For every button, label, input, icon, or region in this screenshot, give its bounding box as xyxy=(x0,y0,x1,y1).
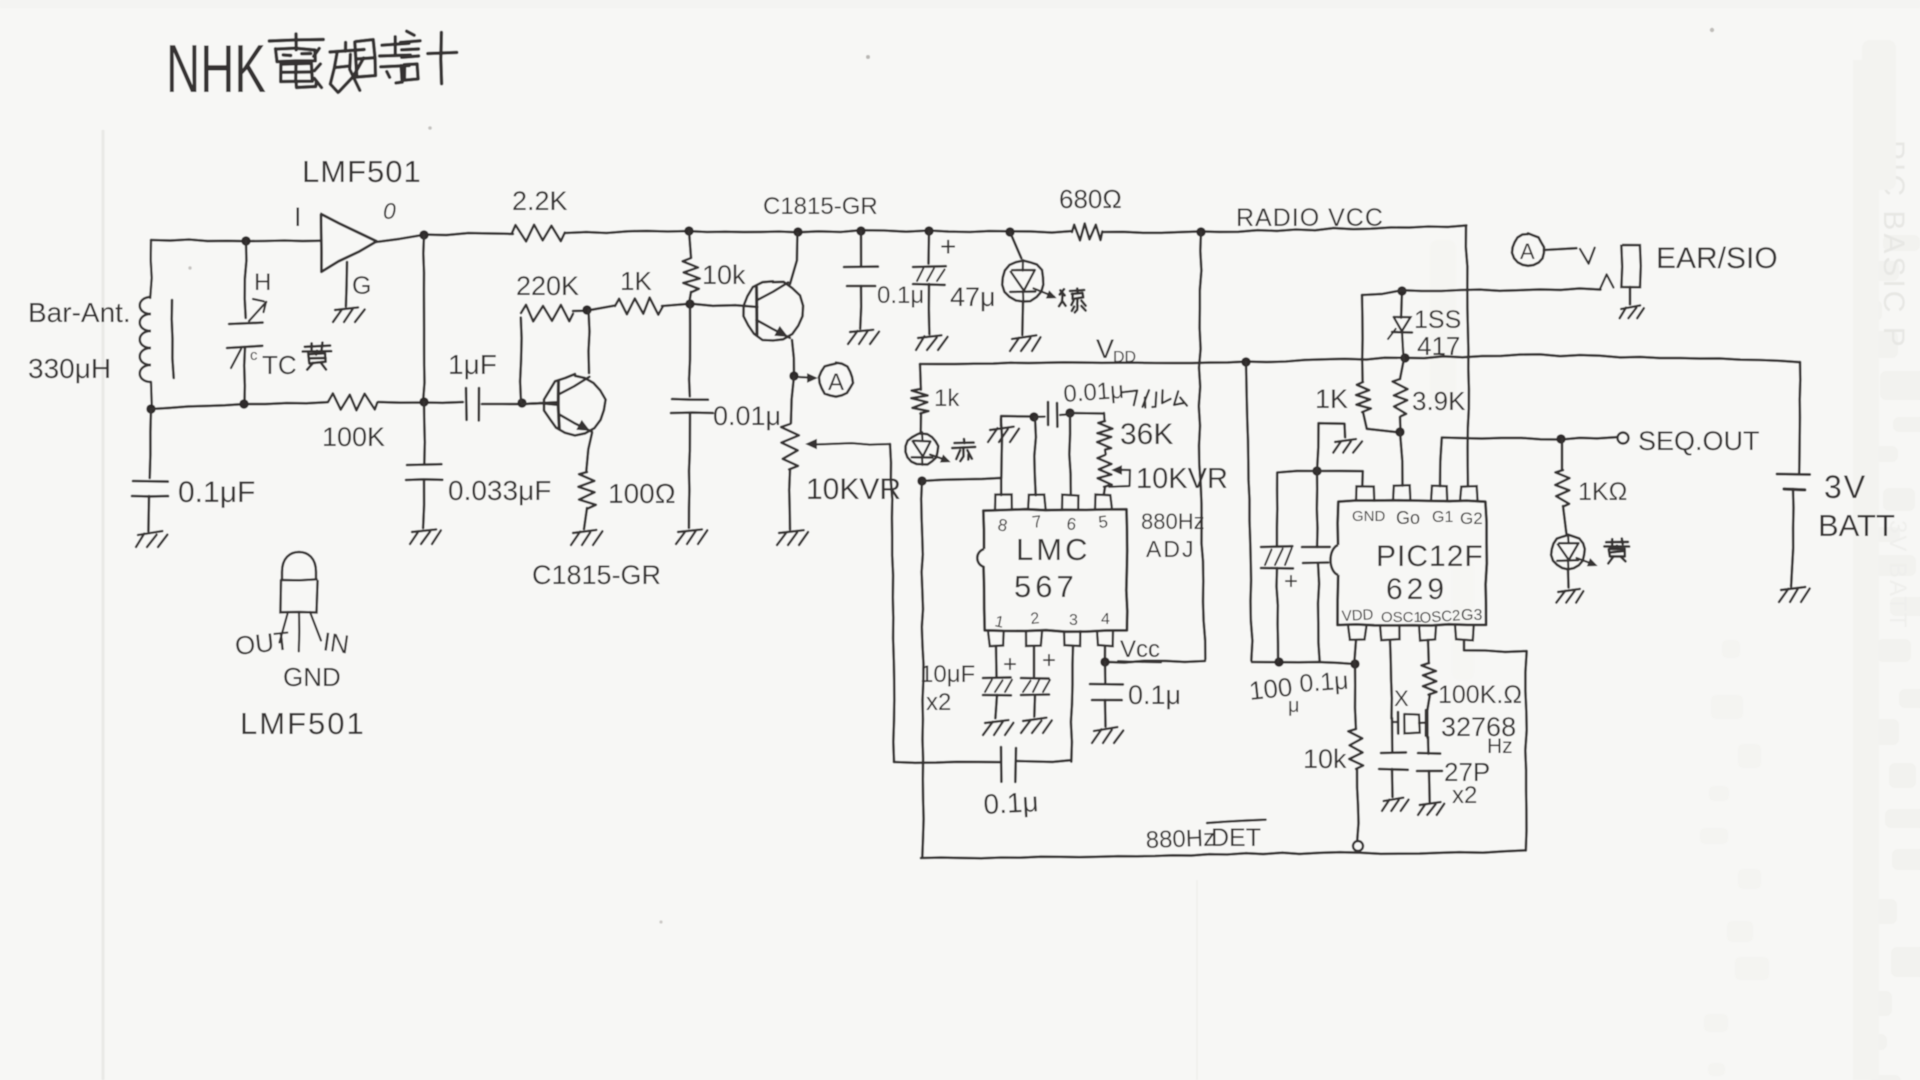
svg-text:1μF: 1μF xyxy=(448,349,497,380)
svg-text:c: c xyxy=(250,347,258,364)
wire Vcc rail xyxy=(1105,661,1205,663)
svg-text:330μH: 330μH xyxy=(28,353,111,384)
svg-text:H: H xyxy=(254,269,271,296)
label 赤 xyxy=(952,439,975,461)
svg-text:C1815-GR: C1815-GR xyxy=(763,193,878,220)
transistor Q1 C1815-GR xyxy=(744,281,804,340)
svg-text:0.033μF: 0.033μF xyxy=(448,475,551,506)
svg-text:Vcc: Vcc xyxy=(1120,636,1160,663)
ground LED green xyxy=(1010,335,1041,351)
trimmer capacitor TC xyxy=(227,299,266,368)
label C1815-GR (Q1) xyxy=(763,193,878,220)
label 220K xyxy=(516,271,579,301)
svg-text:880Hz: 880Hz xyxy=(1145,825,1215,854)
svg-text:1KΩ: 1KΩ xyxy=(1578,478,1627,506)
label 10k xyxy=(702,260,746,290)
ground pin7 net xyxy=(988,427,1019,442)
label Vcc xyxy=(1118,636,1161,663)
wire 10k(PIC) top xyxy=(1354,664,1358,729)
wire G2 drop xyxy=(1466,226,1469,486)
label o (output) xyxy=(383,198,396,224)
label 0.1μ (rail) xyxy=(877,282,924,309)
svg-text:567: 567 xyxy=(1014,569,1078,604)
wire battery bottom xyxy=(1791,489,1793,586)
label 0.1μ (PIC) xyxy=(1298,667,1349,698)
wire top rail amp-out xyxy=(376,233,513,242)
capacitor 0.1μ (bottom) xyxy=(1001,747,1016,782)
label 10μF x2 xyxy=(920,661,975,716)
meter A2 circle xyxy=(1512,233,1544,265)
capacitor 10μF (pin1) xyxy=(983,677,1012,695)
LMC567 pin numbers bottom xyxy=(993,610,1110,632)
wire VDD rail xyxy=(920,354,1800,364)
label 1SS 417 xyxy=(1414,306,1461,361)
svg-text:3: 3 xyxy=(1069,612,1078,629)
svg-text:A: A xyxy=(1520,239,1535,264)
svg-text:36K: 36K xyxy=(1120,418,1173,451)
title kanji 計 xyxy=(401,31,457,83)
node GND net junction xyxy=(1312,466,1321,475)
op-amp U1 LMF501 triangle xyxy=(320,214,377,272)
svg-text:LMF501: LMF501 xyxy=(302,154,422,189)
svg-text:ADJ: ADJ xyxy=(1146,536,1195,562)
label 0.033μF xyxy=(448,475,551,506)
wire Q2 collector up xyxy=(589,310,590,373)
wire antenna to 0.1μF xyxy=(150,409,151,478)
label BATT xyxy=(1818,508,1895,543)
wire 10k bottom lead xyxy=(689,292,691,303)
wire 220K left lead xyxy=(520,318,522,402)
wire GND junction up gnd xyxy=(1317,423,1345,471)
wire Q1 emitter xyxy=(792,340,794,377)
ground 47μ xyxy=(916,335,948,350)
wire bottom cap right xyxy=(1016,760,1071,762)
wire 47μ bottom xyxy=(927,284,930,334)
wire EAR line xyxy=(1362,288,1601,295)
label 3.9K xyxy=(1412,386,1466,416)
wire pin2 cap gnd xyxy=(1033,695,1036,717)
wire 27P right gnd xyxy=(1428,771,1431,802)
label G xyxy=(352,272,371,300)
svg-text:EAR/SIO: EAR/SIO xyxy=(1656,242,1778,275)
wire A2 to V xyxy=(1544,248,1576,250)
label 3V xyxy=(1824,469,1867,505)
package drawing LMF501 TO-92 xyxy=(280,552,322,651)
capacitor 0.01μフィルム xyxy=(1034,402,1071,427)
capacitor 0.1μ (PIC) xyxy=(1302,547,1330,563)
ground jack xyxy=(1620,305,1644,318)
ground 100Ω xyxy=(571,530,602,545)
wire Q2 emitter down xyxy=(586,433,592,472)
svg-text:G2: G2 xyxy=(1460,509,1483,528)
svg-text:0.1μ: 0.1μ xyxy=(1298,667,1349,698)
ground pin4 cap xyxy=(1092,727,1123,743)
svg-text:SEQ.OUT: SEQ.OUT xyxy=(1638,426,1760,456)
svg-text:0.1μ: 0.1μ xyxy=(983,786,1040,820)
wire 0.1μ(2) bottom xyxy=(860,286,861,329)
wire pin4 cap gnd xyxy=(1104,700,1107,727)
label OUT xyxy=(233,625,291,661)
node red LED junction xyxy=(917,476,926,485)
svg-text:G: G xyxy=(352,272,371,300)
svg-text:I: I xyxy=(294,202,302,232)
wire 1k to LED xyxy=(919,413,922,434)
node SEQ junction xyxy=(1556,434,1565,443)
svg-text:Hz: Hz xyxy=(1487,735,1513,758)
label 1KΩ xyxy=(1578,478,1627,506)
wire 100K to crystal xyxy=(1427,694,1430,738)
wire Go pin xyxy=(1400,432,1403,486)
ground pin2 cap xyxy=(1021,718,1052,733)
wire 3.9K bottom xyxy=(1399,417,1402,431)
wire OSC1 to 27P xyxy=(1391,718,1394,752)
svg-text:DET: DET xyxy=(1211,824,1261,852)
svg-text:47μ: 47μ xyxy=(950,282,996,312)
svg-text:1k: 1k xyxy=(934,385,960,412)
wire pin6 to 36K xyxy=(1070,412,1104,415)
label 32768 Hz xyxy=(1441,712,1516,758)
wire 0.01μ bottom xyxy=(689,413,690,528)
label LMF501 (pkg) xyxy=(240,706,366,741)
battery 3V plates xyxy=(1777,474,1810,490)
label VDD xyxy=(1096,334,1136,366)
inductor Bar-Ant 330μH coil xyxy=(140,240,152,409)
label IN xyxy=(321,626,351,659)
label 黄 (TC) xyxy=(303,343,332,370)
svg-text:+: + xyxy=(1284,568,1298,595)
wire OSC1 drop xyxy=(1390,640,1392,718)
svg-text:0.1μ: 0.1μ xyxy=(1128,680,1181,710)
svg-text:NHK: NHK xyxy=(166,31,266,107)
wire pin4 lead xyxy=(1104,646,1107,662)
svg-text:C1815-GR: C1815-GR xyxy=(532,560,661,590)
wire G1 to SEQ.OUT xyxy=(1440,437,1616,486)
label X xyxy=(1394,686,1409,711)
label 47μ xyxy=(950,282,996,312)
resistor 10k (PIC) xyxy=(1348,729,1363,769)
svg-text:680Ω: 680Ω xyxy=(1059,184,1122,214)
label 680Ω xyxy=(1059,184,1122,214)
wire 1K to base junction xyxy=(662,304,757,307)
node base junction xyxy=(685,299,694,308)
svg-text:10KVR: 10KVR xyxy=(806,473,901,506)
ground PIC GND stub xyxy=(1333,439,1362,453)
svg-text:0.01μ: 0.01μ xyxy=(713,401,781,431)
ground 0.033μF xyxy=(410,529,441,544)
wire pin1 lead xyxy=(995,646,998,676)
svg-text:LMF501: LMF501 xyxy=(240,706,366,741)
wire Q2 base xyxy=(522,403,558,405)
label 0.1μF xyxy=(178,476,255,509)
wire 10k(PIC) bottom xyxy=(1357,769,1359,841)
pot2 wiper xyxy=(1109,466,1130,487)
capacitor 0.033μF xyxy=(406,464,442,480)
label 567 xyxy=(1014,569,1078,604)
wire 0.1μ(2) top xyxy=(860,231,863,266)
wire mid rail xyxy=(151,402,327,409)
potentiometer 10KVR (1) xyxy=(781,424,799,469)
svg-text:3V: 3V xyxy=(1824,469,1867,505)
wire bottom cap left xyxy=(894,762,1001,763)
paper specks xyxy=(188,28,1714,924)
label LMF501 (top) xyxy=(302,154,422,189)
label 27P x2 xyxy=(1444,757,1490,809)
label + (47μ) xyxy=(940,231,956,262)
wire top rail mid xyxy=(565,230,1072,233)
label 100K xyxy=(322,422,385,452)
capacitor 1μF xyxy=(466,388,479,420)
label 1k (red) xyxy=(934,385,960,412)
wire red junction to pin8 xyxy=(922,419,1002,495)
svg-text:100K: 100K xyxy=(322,422,385,452)
svg-text:+: + xyxy=(1003,651,1017,678)
wire mid rail b xyxy=(378,401,463,404)
pot1 wiper arrow xyxy=(807,440,890,448)
label 0.01μフィルム xyxy=(1063,377,1187,408)
wire yellow LED gnd xyxy=(1567,569,1570,587)
svg-text:1K: 1K xyxy=(1315,384,1348,414)
wire 880Hz DET rail xyxy=(921,850,1526,858)
svg-text:Go: Go xyxy=(1396,508,1420,528)
node top rail junctions xyxy=(241,226,1205,245)
svg-text:2.2K: 2.2K xyxy=(512,186,568,216)
wire 0.033 bottom xyxy=(423,480,424,528)
wire 0.1μ PIC bottom xyxy=(1318,563,1320,662)
wire PIC lower rail xyxy=(1252,662,1354,664)
label 1μF xyxy=(448,349,497,380)
label GND (pkg) xyxy=(283,662,341,692)
label 10KVR (1) xyxy=(806,473,901,506)
label 緑 xyxy=(1059,289,1086,313)
svg-text:1SS: 1SS xyxy=(1414,306,1461,334)
label 100μ xyxy=(1247,672,1299,717)
node pin4 Vcc junction xyxy=(1100,657,1109,666)
wire GND junction down 0.1μ xyxy=(1316,471,1319,547)
wire LMF501 G pin xyxy=(346,262,347,306)
ghost bleed-through band xyxy=(1430,40,1920,1080)
label 2.2K xyxy=(512,186,568,216)
resistor 36K xyxy=(1097,413,1112,450)
svg-text:0: 0 xyxy=(383,198,396,224)
wire LED green bottom xyxy=(1021,302,1024,335)
svg-text:OSC2: OSC2 xyxy=(1419,607,1461,627)
title kanji 時 xyxy=(355,37,411,83)
svg-text:0.1μF: 0.1μF xyxy=(178,476,255,509)
resistor 220K xyxy=(521,305,573,322)
svg-text:100Ω: 100Ω xyxy=(608,478,676,509)
IC U2 LMC567 body xyxy=(977,509,1127,632)
wire pot1 top xyxy=(791,376,794,423)
resistor 680Ω xyxy=(1072,224,1102,241)
wire pot1 bottom xyxy=(788,470,791,529)
resistor 2.2K xyxy=(512,225,565,242)
diode D1 1SS417 xyxy=(1388,291,1412,358)
wire 100Ω to gnd xyxy=(584,508,587,529)
label 880Hz ADJ xyxy=(1141,509,1205,562)
label + (pin1 cap) xyxy=(1003,651,1017,678)
ground yellow LED xyxy=(1556,589,1583,603)
node diode top xyxy=(1397,286,1406,295)
wire pot1 wiper run xyxy=(890,444,894,762)
svg-text:TC: TC xyxy=(262,350,297,380)
resistor 3.9K xyxy=(1393,379,1408,416)
faint page margin line xyxy=(103,130,1197,1080)
IC U3 PIC12F629 body xyxy=(1331,500,1487,625)
svg-text:880Hz: 880Hz xyxy=(1141,509,1205,534)
wire G3 route xyxy=(1464,640,1527,851)
crystal X 32768Hz xyxy=(1392,710,1427,736)
wire GND junction left-down xyxy=(1277,471,1317,545)
wire amp-out vertical xyxy=(423,235,424,401)
svg-text:RADIO VCC: RADIO VCC xyxy=(1236,204,1384,232)
label TC xyxy=(250,347,297,380)
node emitter junction xyxy=(789,371,798,380)
switch contact Λ xyxy=(1600,274,1614,289)
svg-text:+: + xyxy=(1042,647,1056,674)
title kanji 波 xyxy=(314,42,364,92)
svg-text:10μF: 10μF xyxy=(920,661,975,688)
wire 100μ bottom xyxy=(1277,568,1279,662)
wire OSC2 drop xyxy=(1427,640,1430,663)
ground 27P right xyxy=(1418,802,1444,815)
svg-text:5: 5 xyxy=(1097,512,1108,532)
wire battery top xyxy=(1799,362,1800,474)
svg-text:220K: 220K xyxy=(516,271,579,301)
ground antenna xyxy=(136,531,167,547)
svg-text:DD: DD xyxy=(1113,349,1136,366)
label 1K (base) xyxy=(620,266,652,296)
label 36K xyxy=(1120,418,1173,451)
LMC567 pin numbers top xyxy=(996,512,1109,536)
ground 0.01μ xyxy=(676,529,707,544)
label 880Hz DET xyxy=(1145,820,1265,854)
svg-text:A: A xyxy=(828,369,844,396)
label 10k (PIC) xyxy=(1303,744,1347,774)
wire RADIO VCC vertical xyxy=(1199,232,1206,659)
wire 3.9K top xyxy=(1400,358,1404,379)
wire 0.1μF to ground xyxy=(147,496,150,531)
resistor 100Ω xyxy=(578,472,596,509)
svg-text:VDD: VDD xyxy=(1341,606,1374,625)
wire pin3 drop xyxy=(1071,646,1073,762)
label + (100μ) xyxy=(1284,568,1298,595)
svg-text:OSC1: OSC1 xyxy=(1381,609,1422,626)
capacitor 0.01μ xyxy=(671,399,713,413)
wire pin4 cap xyxy=(1104,662,1107,682)
resistor 1k (red) xyxy=(911,389,928,414)
transistor Q2 C1815-GR xyxy=(544,374,606,436)
node 220K/1K junction xyxy=(582,305,591,314)
svg-text:G1: G1 xyxy=(1432,509,1453,526)
node VDD junctions xyxy=(1241,353,1409,366)
title NHK text xyxy=(166,31,266,107)
label SEQ.OUT xyxy=(1638,426,1760,456)
wire trimmer bottom xyxy=(243,347,246,404)
svg-text:x2: x2 xyxy=(926,689,951,716)
wire jack gnd xyxy=(1629,287,1632,304)
wire 1KΩ to LED xyxy=(1563,506,1566,534)
node DET 10k junction xyxy=(1353,841,1363,851)
node mid rail junctions xyxy=(239,397,526,408)
wire 1k top xyxy=(919,364,923,390)
PIC12F629 pin boxes xyxy=(1348,485,1478,640)
resistor 100KΩ xyxy=(1421,663,1436,695)
LMC567 pin boxes xyxy=(988,495,1113,647)
switch contact V xyxy=(1580,248,1595,264)
wire red junction down xyxy=(921,481,923,857)
svg-text:LMC: LMC xyxy=(1016,532,1090,567)
label 1K (PIC) xyxy=(1315,384,1348,414)
label C1815-GR (Q2) xyxy=(532,560,661,590)
PIC top pin labels xyxy=(1352,508,1483,528)
svg-text:GND: GND xyxy=(1352,508,1386,525)
PIC bottom pin labels xyxy=(1341,606,1482,627)
ground LMF501 xyxy=(333,307,365,322)
wire 1K(PIC) bottom xyxy=(1363,412,1401,433)
svg-text:x2: x2 xyxy=(1452,782,1477,809)
ground pot1 xyxy=(777,530,808,545)
label PIC12F xyxy=(1376,540,1484,573)
wire LED green top xyxy=(1010,232,1021,258)
wire top rail RADIO VCC xyxy=(1103,225,1466,232)
wire VDD pin drop xyxy=(1354,640,1356,665)
label + (pin2 cap) xyxy=(1042,647,1056,674)
wire 1K(PIC) top xyxy=(1361,295,1364,381)
wire to A1 xyxy=(799,374,816,381)
label 0.1μ (pin4) xyxy=(1128,680,1181,710)
svg-text:PIC12F: PIC12F xyxy=(1376,540,1484,573)
node lower rail junctions xyxy=(1274,657,1359,668)
wire pin7 drop xyxy=(1034,417,1036,495)
svg-text:10KVR: 10KVR xyxy=(1136,463,1228,495)
ground 0.1μ (rail) xyxy=(848,330,879,344)
wire 220K-1K xyxy=(573,306,614,311)
label I (input) xyxy=(294,202,302,232)
wire pot2 to pin5 xyxy=(1104,487,1105,495)
svg-text:629: 629 xyxy=(1386,573,1448,606)
wire 10k top lead xyxy=(689,231,691,257)
svg-text:μ: μ xyxy=(1288,695,1300,717)
resistor 100K xyxy=(328,393,377,410)
label 100Ω xyxy=(608,478,676,509)
wire top rail left xyxy=(151,240,321,242)
LED red xyxy=(906,432,950,465)
wire mid rail c xyxy=(482,402,556,404)
label 黄 (LED) xyxy=(1604,539,1629,564)
wire 0.033 top xyxy=(423,402,426,464)
resistor 1KΩ xyxy=(1555,470,1569,506)
wire crystal to 27P right xyxy=(1427,737,1430,754)
svg-text:+: + xyxy=(940,231,956,262)
jack EAR/SIO xyxy=(1621,245,1641,288)
capacitor 10μF (pin2) xyxy=(1021,678,1050,695)
capacitor 0.1μF xyxy=(132,481,168,496)
label Bar-Ant. xyxy=(28,297,131,328)
LED yellow xyxy=(1551,535,1596,570)
ground pin1 cap xyxy=(983,720,1013,735)
potentiometer 10KVR (2) xyxy=(1097,450,1111,487)
node antenna bottom junction xyxy=(146,404,155,413)
ground 27P left xyxy=(1382,798,1409,811)
svg-text:100: 100 xyxy=(1247,672,1293,706)
wire gnd to pin7 node xyxy=(1001,416,1034,426)
wire VDD long drop xyxy=(1246,362,1252,661)
svg-text:10k: 10k xyxy=(702,260,746,290)
svg-text:GND: GND xyxy=(283,662,341,692)
resistor 1K (PIC) xyxy=(1356,382,1371,412)
wire pin6 drop xyxy=(1069,413,1071,495)
wire 27P left gnd xyxy=(1391,769,1394,797)
